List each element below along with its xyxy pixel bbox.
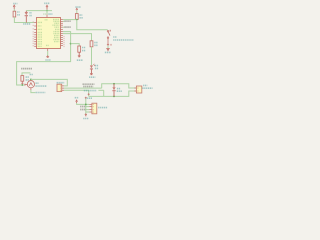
U1 left pin stubs bbox=[34, 23, 36, 47]
wire R1 bottom to IC pin bbox=[14, 17, 34, 23]
module stub right seg bbox=[98, 89, 103, 91]
label RXD J1 bbox=[80, 109, 85, 111]
wire RXD stub bbox=[86, 109, 90, 111]
junction rail bbox=[46, 10, 48, 12]
+5V rail wire bbox=[26, 10, 52, 12]
LED D3 bbox=[90, 64, 99, 73]
J1 vertical wire bbox=[85, 99, 87, 114]
label module line2 bbox=[83, 86, 93, 88]
diode D2 bbox=[112, 84, 122, 97]
label TXD bbox=[64, 20, 70, 22]
U1 right pin numbers bbox=[63, 36, 64, 47]
wire IC pin to R2 node bbox=[63, 19, 77, 21]
ground (R3) bbox=[77, 55, 83, 60]
junction branch R3 bbox=[70, 43, 72, 45]
resistor R1 bbox=[13, 11, 20, 17]
+BATT text bbox=[30, 74, 34, 76]
wire to TXD label bbox=[63, 20, 64, 22]
teal label below bottom wire bbox=[85, 97, 92, 99]
battery label stub wire bbox=[22, 73, 30, 76]
resistor R2 bbox=[75, 14, 82, 20]
junction R5 rail bbox=[21, 84, 23, 86]
label module line1 bbox=[83, 83, 95, 85]
switch SW1 bbox=[107, 30, 112, 46]
resistor R4 bbox=[90, 41, 98, 47]
wire drop x88.7 bbox=[88, 90, 90, 96]
motor bottom label wire bbox=[31, 90, 36, 93]
wire branch to R3 bbox=[71, 44, 80, 46]
diode box bottom wire bbox=[89, 90, 137, 96]
U1 inner pin names left bbox=[38, 22, 43, 46]
diode D1 bbox=[25, 11, 32, 23]
pin cross top of J1 vertical bbox=[85, 97, 87, 99]
switch texts bbox=[113, 36, 116, 38]
junction D2 bottom bbox=[113, 96, 115, 98]
op IC U1 body bbox=[37, 18, 61, 49]
wire R4 to LED bbox=[91, 47, 93, 65]
R5 bottom pin bbox=[21, 81, 23, 85]
ground (U1) bbox=[45, 55, 50, 60]
power flag +5V (above U1) bbox=[44, 3, 50, 9]
pin U1 top VCC bbox=[46, 15, 48, 18]
wire IC pin to R4 LED chain bbox=[63, 34, 92, 41]
power flag +5V (J1 header) bbox=[75, 98, 79, 103]
label RXD bbox=[64, 26, 70, 28]
wire J2 pin3 left seg bbox=[64, 89, 89, 91]
junction R2 node bbox=[76, 19, 78, 21]
junction J1 bbox=[85, 104, 87, 106]
motor M1 bbox=[25, 79, 35, 90]
U1 right pin stubs bbox=[61, 20, 63, 46]
wire TXD stub bbox=[86, 106, 90, 108]
diode box top wire bbox=[102, 84, 137, 88]
wire pin4 stub bbox=[86, 111, 90, 113]
module teal line3 bbox=[84, 90, 96, 92]
connector J3 bbox=[134, 86, 141, 93]
junction D2 top bbox=[113, 83, 115, 85]
wire switch to gnd bbox=[107, 46, 109, 49]
ground (J1) bbox=[83, 113, 89, 118]
J1 text bbox=[98, 107, 107, 109]
motor texts bbox=[36, 82, 39, 84]
connector J1 bbox=[89, 103, 96, 114]
wire IC pin long battery rail bbox=[17, 32, 71, 85]
wire R1 top bbox=[13, 9, 15, 11]
power flag +5V (top of R1) bbox=[13, 4, 17, 9]
resistor R3 bbox=[78, 46, 86, 52]
wire flag to pin1 bbox=[77, 103, 90, 104]
power flag +5V (above R2) bbox=[75, 7, 80, 10]
pin cross on drop bbox=[88, 93, 90, 95]
connector J2 bbox=[57, 84, 64, 91]
J3 texts bbox=[143, 84, 147, 86]
wire J2 pin2 to module bbox=[64, 87, 102, 89]
label BATTERY_SOLAR bbox=[21, 68, 32, 70]
wire to gnd bbox=[47, 51, 49, 56]
ground (D3) bbox=[89, 73, 95, 78]
label TXD J1 bbox=[80, 106, 86, 108]
R3 bottom pin bbox=[78, 52, 80, 55]
resistor R5 bbox=[21, 76, 30, 82]
wire node to switch bbox=[77, 20, 108, 30]
connector J2 label bbox=[57, 82, 65, 84]
motor rail to J2 pin1 bbox=[31, 79, 67, 86]
U1 bottom pin bbox=[47, 49, 49, 52]
ground (SW1) bbox=[105, 48, 111, 52]
junction motor top bbox=[30, 79, 32, 81]
pin name smudges VCC/AVCC bbox=[43, 13, 46, 15]
wire to RXD label bbox=[63, 26, 64, 28]
U1 inner pin names right bbox=[52, 20, 59, 42]
U1 left pin numbers bbox=[33, 21, 34, 46]
wire flag to R2 bbox=[76, 10, 78, 13]
net label RESET under wire bbox=[23, 23, 31, 25]
wire flag to U1 VCC pin bbox=[46, 10, 48, 15]
U1 inner GND bottom bbox=[46, 44, 49, 46]
